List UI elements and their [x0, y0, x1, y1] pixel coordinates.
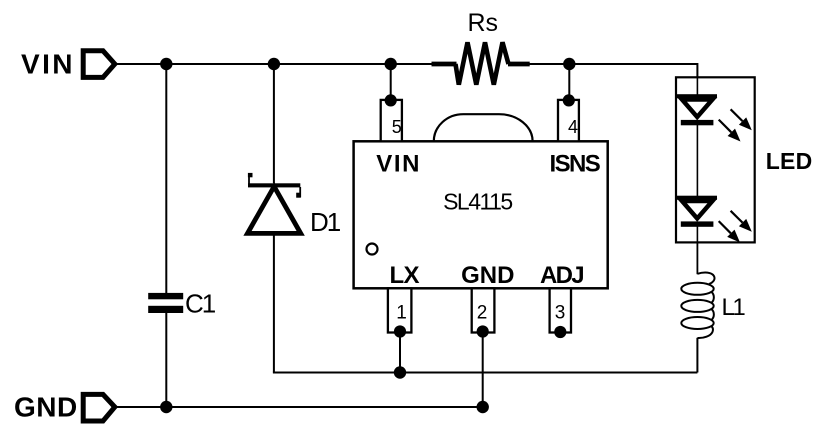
junction pin1 on LX — [394, 366, 406, 378]
svg-text:L1: L1 — [722, 294, 746, 321]
svg-text:ADJ: ADJ — [540, 262, 583, 289]
wire pin4 to rail — [568, 64, 570, 100]
connector VIN — [83, 51, 115, 78]
svg-text:SL4115: SL4115 — [443, 189, 512, 215]
wire C1 branch upper — [165, 64, 167, 294]
wire pin2 to GND rail — [482, 332, 484, 408]
LED D3 (bottom) — [677, 196, 752, 243]
pin 1 box — [388, 288, 412, 332]
wire L1 to LX net — [696, 338, 698, 373]
svg-text:2: 2 — [477, 303, 488, 324]
pin 1 dot — [394, 325, 406, 337]
junction GND end — [477, 401, 489, 413]
wire GND rail — [116, 406, 483, 408]
svg-text:5: 5 — [392, 117, 402, 137]
junction pin5 — [385, 58, 397, 70]
junction D1 branch — [268, 58, 280, 70]
wire pin5 to rail — [390, 64, 392, 100]
inductor L1 — [681, 273, 714, 339]
wire between LEDs — [696, 125, 698, 197]
wire down to LED box — [696, 63, 698, 78]
svg-text:C1: C1 — [185, 289, 216, 319]
IC U1 body — [354, 141, 608, 288]
svg-text:4: 4 — [568, 117, 578, 137]
pin1 indicator circle — [367, 244, 378, 255]
IC top dome — [434, 114, 533, 141]
pin 3 dot — [554, 326, 566, 338]
capacitor C1 — [148, 293, 183, 313]
svg-text:VIN: VIN — [376, 150, 421, 177]
wire VIN rail right of resistor — [529, 63, 697, 65]
wire LX net horizontal — [273, 372, 698, 374]
diode D1 zener — [248, 173, 301, 234]
pin 5 box — [381, 100, 402, 141]
LED block box — [676, 77, 755, 242]
svg-text:VIN: VIN — [21, 49, 75, 80]
junction C1 on GND rail — [160, 401, 172, 413]
connector GND — [83, 394, 115, 421]
svg-text:ISNS: ISNS — [550, 150, 601, 177]
wire LED box to L1 — [696, 243, 698, 275]
svg-text:3: 3 — [555, 303, 566, 324]
svg-text:D1: D1 — [310, 207, 341, 237]
wire D1 branch upper — [273, 64, 275, 183]
pin 2 dot — [477, 325, 489, 337]
wire into LED1 — [696, 77, 698, 95]
svg-text:Rs: Rs — [468, 9, 499, 37]
LED D2 (top) — [677, 94, 752, 141]
wire D1 branch lower — [273, 236, 275, 373]
pin 4 dot — [563, 94, 575, 106]
wire VIN rail left — [116, 63, 432, 65]
svg-text:1: 1 — [396, 303, 407, 324]
svg-text:LED: LED — [766, 148, 813, 174]
pin 5 dot — [385, 94, 397, 106]
svg-text:LX: LX — [390, 262, 420, 289]
junction C1 branch — [160, 58, 172, 70]
wire out of LED2 — [696, 227, 698, 244]
wire pin1 to LX net — [399, 332, 401, 373]
resistor Rs — [432, 42, 530, 84]
svg-text:GND: GND — [14, 392, 78, 423]
wire C1 branch lower — [165, 313, 167, 408]
pin 2 box — [472, 288, 495, 332]
pin 4 box — [558, 100, 579, 141]
svg-text:GND: GND — [461, 262, 514, 289]
pin 3 box — [550, 288, 571, 332]
junction pin4/ISNS — [563, 58, 575, 70]
